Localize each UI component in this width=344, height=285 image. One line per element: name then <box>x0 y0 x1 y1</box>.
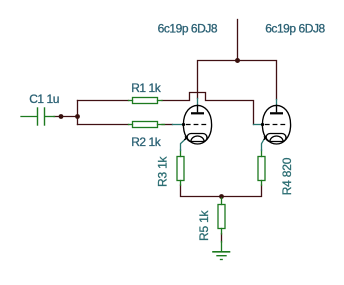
svg-text:R4 820: R4 820 <box>280 157 294 195</box>
svg-text:R2 1k: R2 1k <box>131 135 162 149</box>
svg-text:R3 1k: R3 1k <box>155 155 169 187</box>
svg-text:R1 1k: R1 1k <box>131 81 162 95</box>
svg-text:6c19p 6DJ8: 6c19p 6DJ8 <box>158 22 218 36</box>
svg-text:R5 1k: R5 1k <box>197 209 211 241</box>
svg-text:6c19p 6DJ8: 6c19p 6DJ8 <box>265 22 325 36</box>
svg-text:C1 1u: C1 1u <box>29 92 59 106</box>
